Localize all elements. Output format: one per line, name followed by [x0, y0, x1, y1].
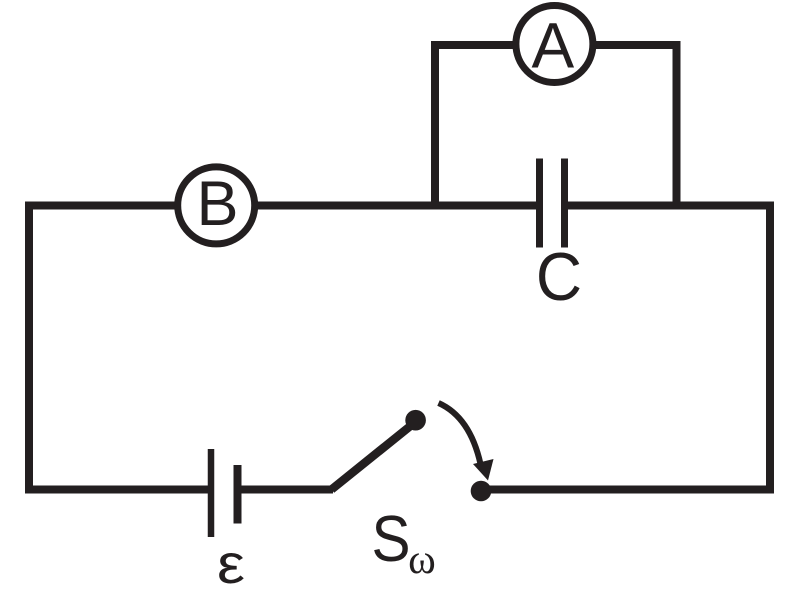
wire: ammeter branch right vertical — [673, 42, 681, 206]
wire: right vertical of main loop — [766, 202, 774, 494]
switch S fixed contact dot — [471, 481, 492, 502]
capacitor C right plate — [561, 159, 568, 248]
svg-text:S: S — [371, 503, 410, 576]
switch closing motion arrow (curved shaft) — [439, 403, 481, 464]
wire: ammeter branch left vertical — [431, 42, 439, 206]
svg-text:A: A — [531, 10, 574, 82]
wire: left vertical of main loop — [25, 202, 33, 494]
svg-text:ω: ω — [408, 537, 436, 583]
capacitor C left plate — [536, 159, 543, 248]
wire: ammeter branch top horizontal (passes through ammeter A) — [431, 41, 681, 49]
ammeter A (circle) — [516, 6, 593, 83]
wire: bottom horizontal left of battery — [25, 486, 209, 494]
svg-text:ε: ε — [217, 532, 245, 593]
switch S pivot contact dot — [405, 410, 426, 431]
switch S lever arm — [332, 424, 414, 490]
wire: bottom horizontal right of switch — [481, 486, 774, 494]
svg-text:B: B — [196, 169, 238, 239]
switch closing motion arrowhead — [473, 459, 494, 481]
battery EMF source: long positive plate — [208, 449, 215, 537]
battery EMF source: short negative plate — [234, 465, 242, 524]
wire: top main horizontal (left of capacitor C, passes through meter B) — [25, 202, 536, 210]
wire: top main horizontal (right of capacitor C) — [568, 202, 774, 210]
meter B (circle) — [178, 167, 255, 244]
wire: bottom horizontal between battery and switch — [239, 486, 333, 494]
svg-text:C: C — [536, 238, 582, 314]
